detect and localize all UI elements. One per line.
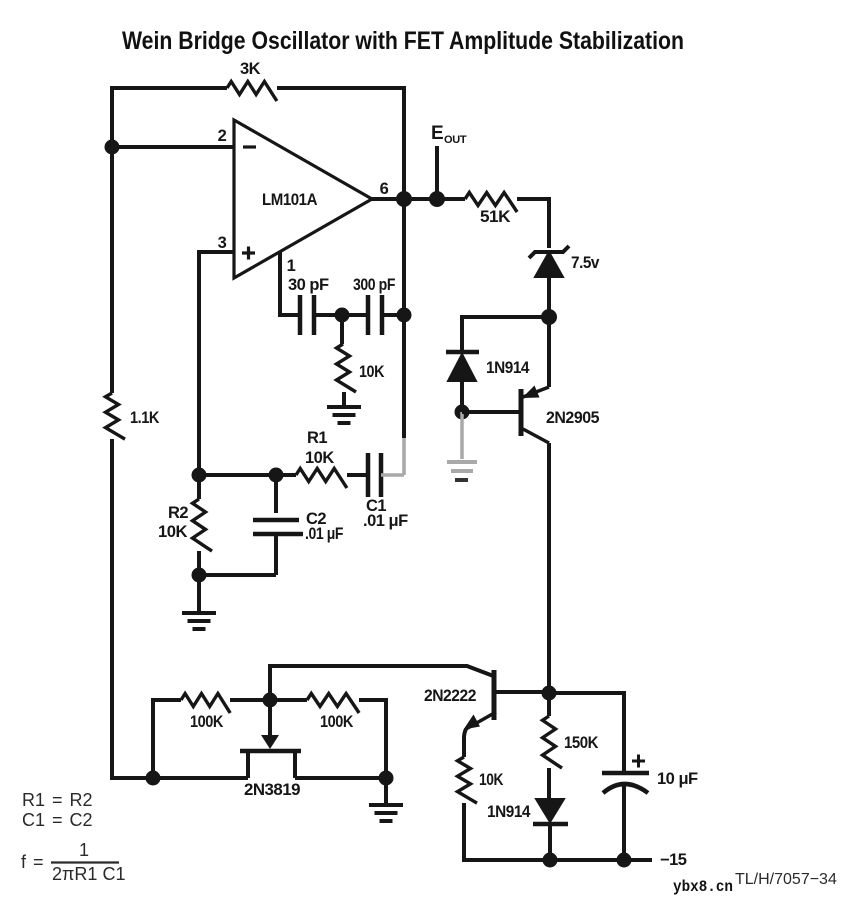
resistor 150K	[547, 693, 551, 716]
svg-text:OUT: OUT	[444, 134, 467, 146]
capacitor 30 pF	[288, 276, 329, 335]
wire pin1 to 30pF	[280, 252, 298, 315]
wire FET gate row up to 2N2222 collector	[270, 666, 496, 700]
wire 100K row left stub	[153, 700, 181, 778]
svg-text:1N914: 1N914	[487, 803, 531, 821]
svg-text:.01 μF: .01 μF	[305, 525, 343, 543]
svg-text:1.1K: 1.1K	[130, 409, 160, 427]
wire op-amp output to node	[372, 197, 404, 201]
svg-text:2N2222: 2N2222	[424, 687, 476, 705]
resistor 1.1K	[106, 393, 126, 439]
wire 300pF to output column	[382, 313, 404, 317]
node R1/R2 left	[192, 468, 207, 483]
wire R1 row	[199, 473, 296, 477]
diode D2 1N914 bottom	[487, 799, 568, 860]
wire left column with 1.1K	[110, 147, 114, 393]
svg-text:1: 1	[287, 257, 296, 275]
svg-text:ybx8.cn: ybx8.cn	[673, 878, 733, 896]
node zener/2N2905 emitter	[541, 309, 557, 325]
svg-text:LM101A: LM101A	[262, 191, 318, 209]
wire 30pF to node	[314, 313, 368, 317]
capacitor 300 pF	[353, 276, 395, 335]
node comp caps	[335, 308, 350, 323]
resistor 100K left	[181, 694, 230, 714]
svg-text:10K: 10K	[305, 449, 334, 467]
svg-text:1N914: 1N914	[486, 359, 530, 377]
wire 100K left to gate node	[230, 698, 307, 702]
wire 10K comp to ground	[342, 392, 346, 406]
wire Eout stub	[435, 146, 439, 199]
wire node to 1N914 branch	[462, 317, 549, 352]
resistor R 3K feedback	[227, 82, 277, 102]
svg-text:10K: 10K	[479, 771, 503, 789]
node output pin 6	[396, 191, 412, 207]
wire output to 51K	[404, 197, 465, 201]
svg-text:30 pF: 30 pF	[288, 276, 329, 294]
wire 100K right to drain node	[359, 700, 386, 778]
wire top feedback loop left/top	[112, 88, 227, 147]
node R1/C2	[269, 468, 284, 483]
svg-text:2πR1 C1: 2πR1 C1	[52, 864, 125, 884]
node junction pin2/feedback	[105, 140, 120, 155]
op-amp U1 LM101A triangle	[234, 120, 372, 278]
wire 51K to zener	[517, 199, 549, 248]
capacitor 10uF electrolytic	[602, 755, 698, 794]
svg-text:10K: 10K	[158, 523, 188, 541]
svg-text:R2: R2	[168, 504, 188, 522]
svg-text:100K: 100K	[320, 713, 354, 731]
svg-text:2N2905: 2N2905	[546, 409, 599, 427]
ground below compensation 10K	[327, 405, 361, 409]
svg-text:−15: −15	[660, 851, 687, 869]
node 300pF/output column	[397, 308, 412, 323]
svg-text:E: E	[431, 123, 444, 144]
node Eout	[429, 191, 445, 207]
svg-text:51K: 51K	[480, 208, 511, 226]
svg-text:3K: 3K	[240, 60, 261, 78]
resistor 10K compensation	[340, 315, 344, 344]
wire 10uF to -15 rail	[622, 784, 626, 860]
transistor Q2 2N2222 (NPN)	[424, 670, 549, 757]
node D1/base 2N2905	[455, 405, 470, 420]
resistor 100K right	[307, 694, 359, 714]
node FET drain/ground	[379, 771, 394, 786]
ground below drain node	[384, 778, 388, 803]
svg-text:.01 μF: .01 μF	[363, 512, 408, 530]
wire 2N2905 collector down	[547, 443, 551, 693]
svg-text:300 pF: 300 pF	[353, 276, 395, 294]
svg-text:C1 = C2: C1 = C2	[22, 810, 93, 830]
node R2/C2 bottom	[192, 568, 207, 583]
wire C1 to output column (faded)	[381, 438, 404, 475]
svg-text:f =: f =	[21, 852, 44, 872]
svg-text:10 μF: 10 μF	[657, 770, 698, 788]
svg-text:1: 1	[79, 840, 89, 860]
node bottom-left rail	[146, 771, 161, 786]
wire top feedback loop right	[277, 88, 404, 192]
resistor R1 10K	[296, 469, 347, 489]
wire noninverting input (pin 3)	[199, 252, 234, 475]
svg-text:R1 = R2: R1 = R2	[22, 790, 93, 810]
svg-text:Wein Bridge Oscillator with FE: Wein Bridge Oscillator with FET Amplitud…	[122, 27, 684, 55]
node D2 / -15 rail	[543, 853, 558, 868]
node collector 2N2905 / base wire / 150K	[542, 686, 557, 701]
svg-text:TL/H/7057−34: TL/H/7057−34	[735, 871, 837, 888]
transistor Q1 2N2905 (PNP)	[462, 317, 599, 443]
svg-text:R1: R1	[307, 429, 327, 447]
wire R1 to C1	[347, 473, 368, 477]
diode D1 1N914	[446, 352, 530, 412]
svg-text:7.5v: 7.5v	[571, 254, 600, 272]
ground below R2	[197, 575, 201, 611]
wire C2 bottom to R2 bottom	[199, 573, 276, 577]
resistor 10K bottom	[458, 757, 478, 803]
FET Q3 2N3819	[240, 700, 301, 799]
svg-text:6: 6	[380, 180, 389, 198]
svg-text:2: 2	[218, 127, 227, 145]
node 10uF / -15 rail	[617, 853, 632, 868]
svg-text:3: 3	[218, 234, 227, 252]
wire left column lower	[112, 439, 248, 778]
svg-text:2N3819: 2N3819	[244, 781, 300, 799]
wire output column down	[402, 199, 406, 438]
capacitor C2 .01uF	[253, 475, 343, 575]
ground (faded) below D1	[447, 412, 477, 480]
minus sign inverting input	[243, 145, 256, 148]
wire inverting input (pin 2)	[112, 145, 234, 149]
svg-text:10K: 10K	[359, 363, 384, 381]
svg-text:100K: 100K	[190, 713, 224, 731]
wire node to 10uF branch	[549, 693, 624, 771]
zener diode 7.5v	[529, 246, 600, 317]
capacitor C1 .01uF	[363, 453, 408, 530]
plus sign noninverting input	[242, 247, 255, 260]
svg-text:150K: 150K	[564, 734, 599, 752]
wire FET drain to ground node	[295, 776, 386, 780]
wire -15 rail	[536, 858, 652, 862]
node FET gate	[263, 693, 278, 708]
resistor 51K	[465, 193, 517, 213]
resistor R2 10K	[197, 475, 201, 499]
